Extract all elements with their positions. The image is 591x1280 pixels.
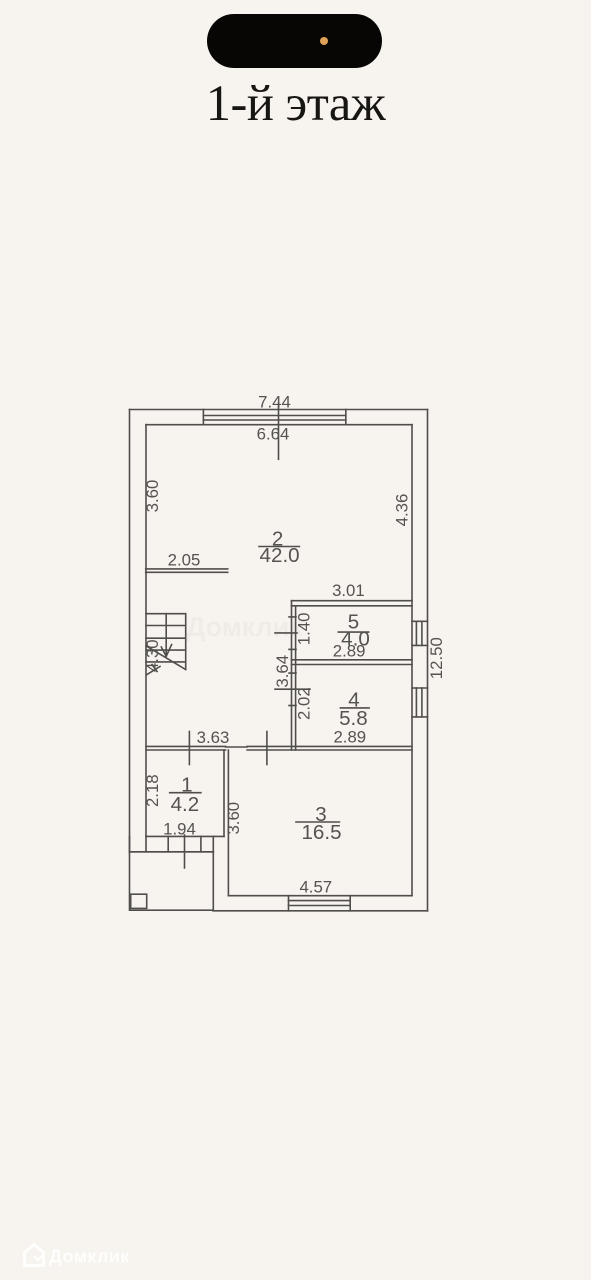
- fraction bar room5: [338, 631, 368, 633]
- wall room1-room3: [224, 750, 228, 896]
- svg-text:42.0: 42.0: [260, 544, 300, 567]
- dim leader 1.94: [184, 835, 186, 868]
- window top W1: [203, 410, 345, 425]
- outer wall bottom: [213, 910, 428, 912]
- svg-text:5.8: 5.8: [339, 707, 368, 730]
- fraction bar room4: [340, 707, 369, 709]
- camera dot: [320, 37, 328, 45]
- fraction bar room2: [259, 546, 299, 548]
- inner wall right: [411, 425, 413, 896]
- window right W2: [412, 621, 428, 645]
- inner wall top: [146, 424, 412, 426]
- wall 2.05: [146, 569, 228, 572]
- svg-text:Домклик: Домклик: [49, 1247, 130, 1267]
- svg-text:3.60: 3.60: [143, 480, 162, 513]
- window right W3: [412, 688, 428, 717]
- svg-text:3.63: 3.63: [197, 728, 230, 747]
- svg-text:4.36: 4.36: [392, 494, 411, 527]
- watermark center faint: [186, 612, 303, 643]
- inner wall bottom: [228, 895, 412, 897]
- svg-text:6.64: 6.64: [257, 425, 290, 444]
- dim line 3.63 across door gap: [226, 746, 248, 748]
- dim tick a: [188, 732, 190, 765]
- outer wall left: [129, 410, 131, 853]
- svg-text:4.30: 4.30: [143, 639, 162, 672]
- dim leader 7.44-6.64: [278, 403, 280, 459]
- status pill: [207, 14, 382, 68]
- dim ticks 2.02: [275, 673, 310, 705]
- stairs: [146, 614, 186, 675]
- svg-text:2.18: 2.18: [143, 774, 162, 807]
- dim ticks 1.40: [275, 617, 297, 650]
- porch outline: [130, 852, 214, 910]
- wall rooms 5-4 left: [292, 601, 296, 750]
- window room1 bottom strip: [130, 836, 214, 851]
- svg-text:3.64: 3.64: [273, 655, 292, 688]
- svg-text:4.0: 4.0: [341, 628, 370, 651]
- watermark bottom: [19, 1240, 22, 1243]
- window bottom W4: [289, 896, 351, 911]
- svg-text:4.57: 4.57: [299, 878, 332, 897]
- svg-text:2.02: 2.02: [295, 687, 314, 720]
- svg-text:1.94: 1.94: [163, 820, 196, 839]
- svg-text:2.05: 2.05: [168, 551, 201, 570]
- fraction bar room3: [296, 821, 339, 823]
- svg-text:7.44: 7.44: [258, 393, 291, 412]
- svg-text:4.2: 4.2: [171, 793, 200, 816]
- svg-text:2.89: 2.89: [333, 727, 366, 746]
- dim tick b: [266, 732, 268, 765]
- fraction bar room1: [170, 792, 201, 794]
- svg-text:3.01: 3.01: [332, 581, 365, 600]
- outer wall right: [427, 410, 429, 911]
- wall corridor bottom right segment: [247, 746, 412, 750]
- wall rooms 5-4 divider: [292, 660, 413, 665]
- outer wall top: [130, 409, 428, 411]
- wall room5 top: [292, 601, 413, 606]
- wall room1 bottom: [146, 835, 224, 837]
- porch column: [131, 894, 147, 908]
- inner wall left: [145, 425, 147, 837]
- svg-text:16.5: 16.5: [301, 821, 341, 844]
- svg-text:12.50: 12.50: [427, 637, 446, 679]
- wall corridor bottom left segment: [146, 746, 226, 750]
- svg-text:3.60: 3.60: [224, 802, 243, 835]
- title: [0, 74, 591, 132]
